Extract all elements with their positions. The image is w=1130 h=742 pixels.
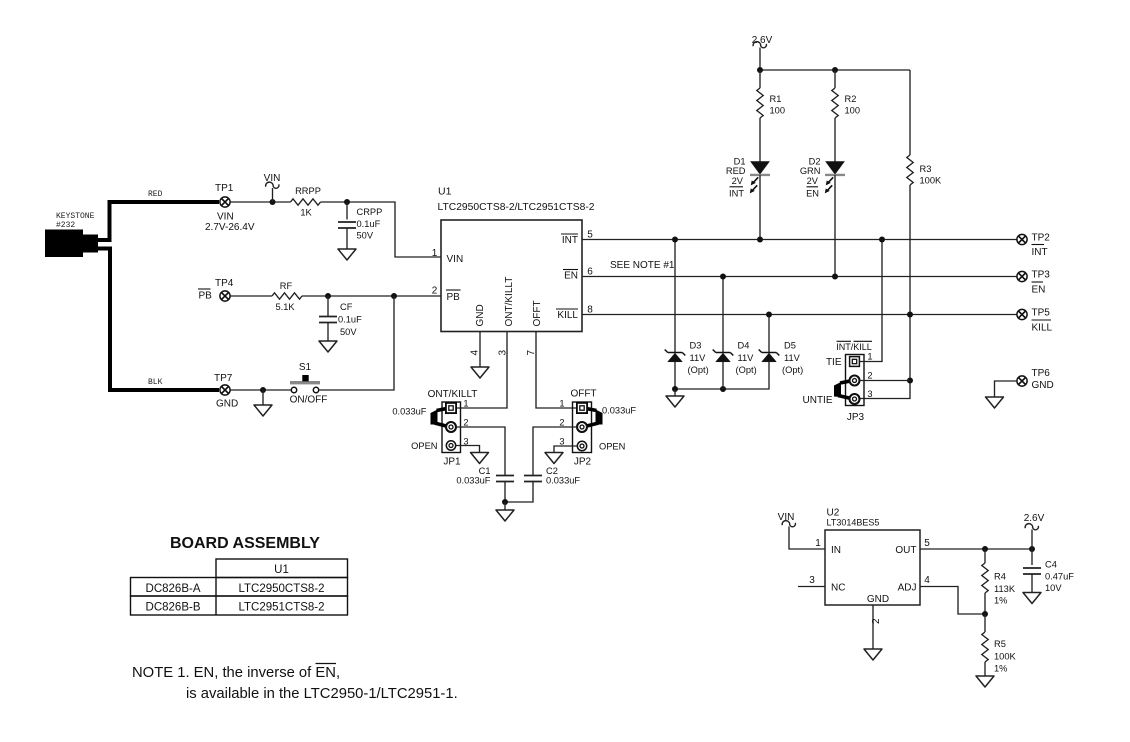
svg-text:KEYSTONE: KEYSTONE: [56, 212, 95, 221]
svg-text:VIN: VIN: [264, 173, 281, 184]
svg-text:5.1K: 5.1K: [275, 302, 295, 312]
svg-text:10V: 10V: [1045, 583, 1062, 593]
svg-text:LTC2951CTS8-2: LTC2951CTS8-2: [238, 602, 324, 614]
svg-text:ONT/KILLT: ONT/KILLT: [428, 389, 478, 400]
svg-text:ON/OFF: ON/OFF: [290, 395, 328, 406]
svg-text:C1: C1: [479, 466, 491, 476]
svg-text:R5: R5: [994, 639, 1006, 649]
svg-text:R4: R4: [994, 572, 1006, 582]
svg-text:TP6: TP6: [1032, 368, 1051, 379]
svg-text:D4: D4: [738, 341, 750, 351]
svg-text:5: 5: [587, 230, 593, 241]
svg-text:3: 3: [867, 389, 872, 399]
svg-text:50V: 50V: [357, 231, 374, 241]
svg-text:CRPP: CRPP: [357, 207, 383, 217]
svg-text:DC826B-B: DC826B-B: [146, 602, 201, 614]
svg-text:50V: 50V: [340, 327, 357, 337]
svg-text:11V: 11V: [738, 353, 755, 363]
svg-text:1: 1: [432, 248, 438, 259]
svg-text:TIE: TIE: [826, 357, 842, 368]
svg-text:3: 3: [498, 350, 509, 356]
svg-text:OFFT: OFFT: [532, 300, 543, 326]
svg-text:OUT: OUT: [895, 545, 916, 556]
svg-text:LTC2950CTS8-2: LTC2950CTS8-2: [238, 583, 324, 595]
svg-text:TP3: TP3: [1032, 270, 1051, 281]
svg-text:2.7V-26.4V: 2.7V-26.4V: [205, 222, 255, 233]
svg-text:TP1: TP1: [215, 183, 234, 194]
svg-text:LT3014BES5: LT3014BES5: [827, 518, 880, 528]
svg-text:113K: 113K: [994, 584, 1016, 594]
svg-text:D3: D3: [690, 341, 702, 351]
svg-text:0.1uF: 0.1uF: [357, 219, 381, 229]
svg-text:#232: #232: [56, 221, 75, 230]
svg-text:2: 2: [463, 418, 468, 428]
svg-text:0.033uF: 0.033uF: [546, 476, 580, 486]
svg-text:JP2: JP2: [574, 457, 592, 468]
svg-text:GRN: GRN: [800, 166, 821, 176]
svg-text:R1: R1: [770, 94, 782, 104]
svg-text:VIN: VIN: [778, 512, 795, 523]
svg-text:KILL: KILL: [1032, 323, 1053, 334]
svg-text:UNTIE: UNTIE: [803, 395, 833, 406]
svg-text:RED: RED: [148, 190, 163, 199]
svg-text:RRPP: RRPP: [295, 186, 321, 196]
svg-text:1%: 1%: [994, 664, 1007, 674]
svg-text:OPEN: OPEN: [599, 442, 625, 452]
svg-text:JP3: JP3: [847, 412, 865, 423]
svg-text:PB: PB: [447, 292, 461, 303]
svg-text:100K: 100K: [920, 176, 943, 186]
svg-text:ADJ: ADJ: [898, 583, 917, 594]
svg-text:GND: GND: [475, 304, 486, 326]
svg-text:U1: U1: [274, 564, 289, 576]
svg-text:6: 6: [587, 267, 593, 278]
svg-text:EN: EN: [564, 271, 578, 282]
svg-text:is available in the LTC2950-1/: is available in the LTC2950-1/LTC2951-1.: [186, 686, 458, 702]
svg-text:1: 1: [815, 538, 821, 549]
svg-text:R3: R3: [920, 164, 932, 174]
svg-text:11V: 11V: [784, 353, 801, 363]
svg-text:GND: GND: [1032, 380, 1054, 391]
svg-text:IN: IN: [831, 545, 841, 556]
svg-text:2: 2: [559, 418, 564, 428]
svg-text:3: 3: [559, 437, 564, 447]
svg-text:TP7: TP7: [214, 373, 233, 384]
svg-text:U1: U1: [438, 186, 452, 198]
svg-text:1: 1: [463, 399, 468, 409]
svg-text:7: 7: [526, 350, 537, 356]
svg-text:2: 2: [867, 371, 872, 381]
svg-text:C2: C2: [546, 466, 558, 476]
svg-text:4: 4: [470, 350, 481, 356]
svg-text:0.033uF: 0.033uF: [392, 407, 426, 417]
svg-text:VIN: VIN: [217, 212, 234, 223]
svg-text:INT: INT: [1032, 247, 1048, 258]
svg-text:RED: RED: [726, 166, 746, 176]
svg-text:TP5: TP5: [1032, 308, 1051, 319]
svg-text:(Opt): (Opt): [782, 365, 803, 375]
svg-text:1: 1: [867, 352, 872, 362]
svg-text:RF: RF: [280, 281, 293, 291]
svg-text:TP2: TP2: [1032, 233, 1051, 244]
svg-text:0.47uF: 0.47uF: [1045, 572, 1074, 582]
svg-text:2: 2: [871, 618, 882, 624]
svg-text:OPEN: OPEN: [411, 441, 437, 451]
svg-text:S1: S1: [299, 362, 312, 373]
svg-text:2V: 2V: [807, 176, 819, 186]
svg-text:GND: GND: [216, 399, 238, 410]
svg-text:1%: 1%: [994, 596, 1007, 606]
svg-text:D2: D2: [809, 157, 821, 167]
svg-text:KILL: KILL: [557, 310, 578, 321]
svg-text:D5: D5: [784, 341, 796, 351]
svg-text:0.1uF: 0.1uF: [338, 315, 362, 325]
svg-text:INT/KILL: INT/KILL: [836, 342, 872, 352]
svg-text:OFFT: OFFT: [570, 389, 596, 400]
svg-text:4: 4: [924, 575, 930, 586]
svg-text:EN: EN: [1032, 285, 1046, 296]
svg-text:3: 3: [809, 575, 815, 586]
svg-text:LTC2950CTS8-2/LTC2951CTS8-2: LTC2950CTS8-2/LTC2951CTS8-2: [438, 202, 595, 213]
svg-text:100K: 100K: [994, 652, 1017, 662]
svg-text:1: 1: [559, 399, 564, 409]
svg-text:(Opt): (Opt): [736, 365, 757, 375]
svg-text:8: 8: [587, 305, 593, 316]
svg-text:0.033uF: 0.033uF: [602, 406, 636, 416]
svg-text:DC826B-A: DC826B-A: [146, 583, 201, 595]
svg-text:VIN: VIN: [447, 254, 464, 265]
svg-text:2: 2: [432, 286, 438, 297]
svg-text:1K: 1K: [300, 208, 312, 218]
svg-text:0.033uF: 0.033uF: [456, 476, 490, 486]
svg-text:100: 100: [845, 106, 861, 116]
svg-text:INT: INT: [729, 189, 744, 199]
svg-text:2.6V: 2.6V: [752, 35, 773, 46]
svg-text:R2: R2: [845, 94, 857, 104]
svg-text:CF: CF: [340, 302, 353, 312]
svg-text:BOARD ASSEMBLY: BOARD ASSEMBLY: [170, 535, 320, 552]
svg-text:C4: C4: [1045, 560, 1057, 570]
svg-text:2V: 2V: [732, 176, 744, 186]
svg-text:11V: 11V: [690, 353, 707, 363]
svg-text:ONT/KILLT: ONT/KILLT: [504, 277, 515, 327]
svg-text:JP1: JP1: [443, 457, 461, 468]
svg-text:NOTE 1. EN, the inverse of EN,: NOTE 1. EN, the inverse of EN,: [132, 665, 340, 681]
svg-text:PB: PB: [199, 291, 213, 302]
svg-text:(Opt): (Opt): [688, 365, 709, 375]
svg-text:TP4: TP4: [215, 278, 234, 289]
svg-text:100: 100: [770, 106, 786, 116]
svg-text:NC: NC: [831, 583, 845, 594]
svg-text:5: 5: [924, 538, 930, 549]
svg-text:SEE NOTE #1: SEE NOTE #1: [610, 260, 675, 271]
svg-text:D1: D1: [734, 157, 746, 167]
svg-text:BLK: BLK: [148, 378, 163, 387]
svg-text:INT: INT: [562, 235, 578, 246]
svg-text:EN: EN: [806, 189, 819, 199]
svg-text:2.6V: 2.6V: [1024, 513, 1045, 524]
svg-text:GND: GND: [867, 594, 889, 605]
